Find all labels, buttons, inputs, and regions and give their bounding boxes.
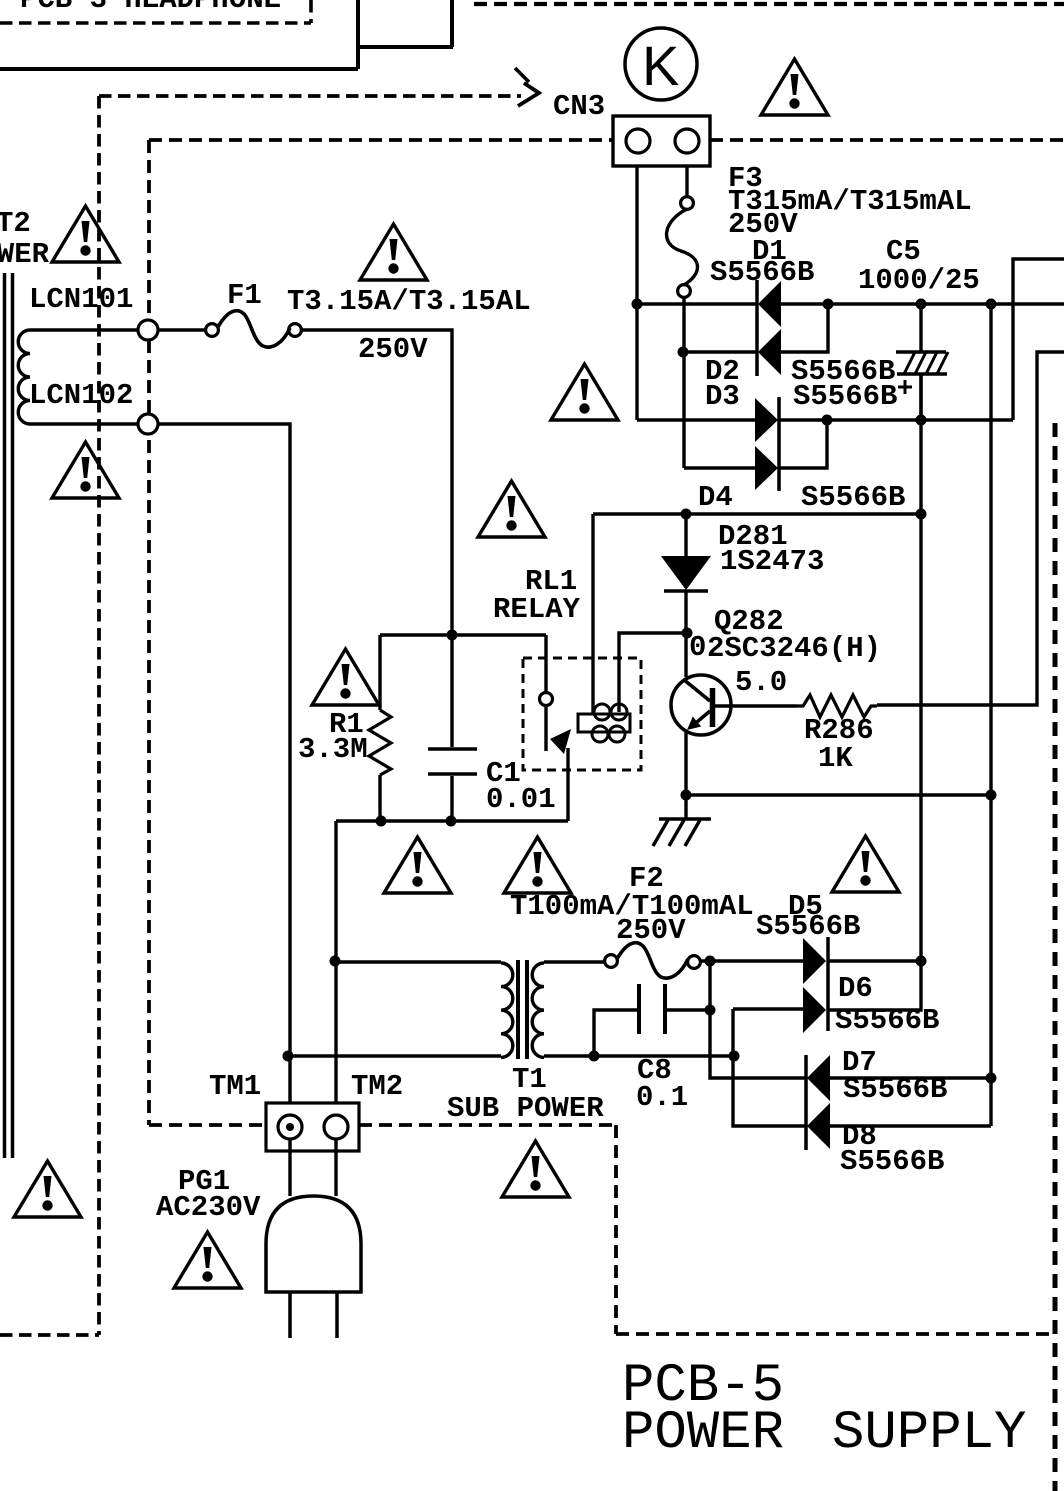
warning triangle below PG1 [174,1232,241,1288]
outer dashed boundary of power-supply block [0,96,521,1335]
svg-text:D4: D4 [698,481,733,514]
svg-text:AC230V: AC230V [156,1191,261,1224]
wire relay coil right lead to collector node [619,633,687,712]
svg-text:S5566B: S5566B [710,256,814,289]
junction rail1 CN3 [632,299,643,310]
diode D8 [807,1103,830,1149]
junction F3 D2 [678,347,689,358]
svg-text:D3: D3 [705,380,740,413]
wire T2 to LCN101 [30,328,138,331]
relay coil [578,714,630,732]
svg-text:D6: D6 [838,972,873,1005]
node line y=514 [593,512,921,515]
warning triangle near LCN101 [52,206,119,262]
wire rail2 corner up to edge [1013,259,1064,420]
capacitor C8 [639,984,665,1034]
wire bottom of R1/C1/relay [336,821,568,1115]
wire D2 cathode up to rail1 [781,304,828,352]
capacitor C5 [919,304,922,420]
svg-text:POWER: POWER [0,238,50,271]
wire F2 out to D5 [700,959,803,962]
wire D6 anode and down to D8 [733,1009,806,1126]
inner dashed boundary bottom via TM block [149,1125,1053,1334]
junction emitter [681,790,692,801]
junction C8 right [705,1005,716,1016]
junction rail2 C5 [916,415,927,426]
junction emitter R286 [986,790,997,801]
warning triangle below SUB POWER [502,1141,569,1197]
junction D5 out [916,956,927,967]
svg-text:5.0: 5.0 [735,666,787,699]
rail2 wire (lower dc rail) [637,418,1013,421]
wire D5 cathode to bus [828,959,921,962]
terminal LCN101 [138,320,158,340]
fuse F1 [206,324,219,337]
warning triangle above D5 [832,836,899,892]
transformer T1 core [518,960,527,1059]
junction C1 bottom [446,816,457,827]
diode D281 [684,514,687,556]
diode D2 [758,329,781,375]
svg-text:250V: 250V [358,333,428,366]
vertical bus x=991 [989,304,992,1126]
emitter node wire [686,793,991,796]
plug PG1 [266,1196,361,1292]
warning triangle left of D2 [551,364,618,420]
junction TM2 T1 [330,956,341,967]
wire relay coil left lead [591,514,594,714]
junction y1056 end [729,1051,740,1062]
junction rail1 x991 [986,299,997,310]
relay switch [544,635,547,692]
junction rail1 D2 [823,299,834,310]
resistor R1 [378,635,381,710]
wire D6 cathode up to D5 node [828,961,921,1010]
relay RL1 dashed enclosure [523,658,641,770]
warning triangle below C1 right [504,837,571,893]
svg-text:CN3: CN3 [553,90,605,123]
diode D5 [826,937,830,1031]
svg-text:S5566B: S5566B [793,380,897,413]
svg-text:1K: 1K [818,742,853,775]
svg-text:T2: T2 [0,207,31,240]
junction TM1 T1 [283,1051,294,1062]
wire D8 anode up to D7 node [830,1124,991,1127]
svg-text:0.01: 0.01 [486,783,556,816]
transistor Q282 [671,675,731,735]
transformer T1 primary [335,960,501,963]
svg-text:LCN102: LCN102 [29,379,133,412]
warning triangle right of K [761,59,828,115]
junction R1C1 top [447,630,458,641]
diode D3 [777,397,781,491]
dashed boundary right edge [1053,423,1058,1491]
svg-text:F1: F1 [227,279,262,312]
svg-text:RELAY: RELAY [493,593,581,626]
svg-text:SUPPLY: SUPPLY [832,1403,1026,1464]
capacitor C1 [450,635,453,821]
svg-text:0.1: 0.1 [636,1081,688,1114]
junction D7 out [986,1073,997,1084]
warning triangle above RL1 [478,481,545,537]
svg-text:PCB 3 HEADPHONE: PCB 3 HEADPHONE [20,0,281,16]
resistor R286 [712,704,797,707]
ground [684,795,687,819]
diode D1 [755,280,759,376]
svg-text:1000/25: 1000/25 [858,264,980,297]
junction F2 out [705,956,716,967]
warning triangle below LCN102 [52,442,119,498]
junction R1 bottom [376,816,387,827]
warning triangle bottom left [14,1161,81,1217]
wire D7 anode to emitter bus [830,1076,991,1079]
junction C8 left [589,1051,600,1062]
warning triangle above F1 rating [360,224,427,280]
junction coil collector [682,628,693,639]
wire R286 to top edge [877,352,1064,705]
svg-text:250V: 250V [616,914,686,947]
dashed boundary line top-right [474,2,1064,6]
fuse F3 [685,166,688,197]
wire D4 cathode up to rail2 [779,420,827,468]
inner dashed boundary left/top [149,140,1064,1125]
junction rail1 C5 [916,299,927,310]
fuse F2 [605,955,618,968]
rail1 wire (top dc rail) [637,302,1064,305]
svg-text:LCN101: LCN101 [29,283,133,316]
svg-text:2SC3246(H): 2SC3246(H) [707,632,881,665]
svg-text:SUB POWER: SUB POWER [447,1092,604,1125]
svg-text:1S2473: 1S2473 [720,545,824,578]
junction rail2 D4 [822,415,833,426]
main vertical bus x=921 [919,374,922,961]
svg-text:3.3M: 3.3M [298,733,368,766]
svg-text:TM2: TM2 [351,1070,403,1103]
wire LCN101 to F1 [158,328,206,331]
diode D6 [803,987,826,1033]
wire F3 down to D2/D4 branch [682,297,685,468]
transformer T2 winding [18,330,30,424]
diode D7 [804,1055,808,1150]
warning triangle below C1 left [384,837,451,893]
svg-text:TM1: TM1 [209,1070,261,1103]
svg-text:S5566B: S5566B [801,481,905,514]
solid box top-left outer (partial) [356,0,453,47]
warning triangle left of R1 [312,649,379,705]
terminal LCN102 [138,414,158,434]
wire F1 to corner, down to R1/C1 node [301,330,452,635]
dashed label box top-left (partial) [0,0,311,23]
wire D5 branch down to D7 [710,961,806,1078]
transformer T1 secondary [532,963,544,1057]
solid box top-left inner (partial) [0,0,358,69]
diode D4 [755,446,778,490]
junction y514 bus [916,509,927,520]
wires TM block to plug [290,1139,336,1196]
wire D4 anode from F3 node [684,466,755,469]
wire D2 anode to F3 node [683,350,757,353]
terminal block TM1 TM2 [266,1103,359,1151]
svg-text:S5566B: S5566B [840,1145,944,1178]
dashed arrow to CN3 [515,68,529,82]
svg-text:POWER: POWER [622,1403,784,1464]
wire CN3 pin1 down to rail1 [635,166,638,420]
wire LCN102 right and down to T1 [158,424,290,1115]
connector CN3 [613,116,710,166]
wire T2 to LCN102 [30,422,138,425]
svg-text:K: K [642,34,679,97]
indicator lamp K [625,28,697,100]
svg-text:T3.15A/T3.15AL: T3.15A/T3.15AL [287,285,531,318]
svg-text:S5566B: S5566B [756,910,860,943]
wire R1/C1 top [380,633,546,636]
transformer T2 core (partial, off page) [5,273,13,1158]
junction D281 anode [681,509,692,520]
